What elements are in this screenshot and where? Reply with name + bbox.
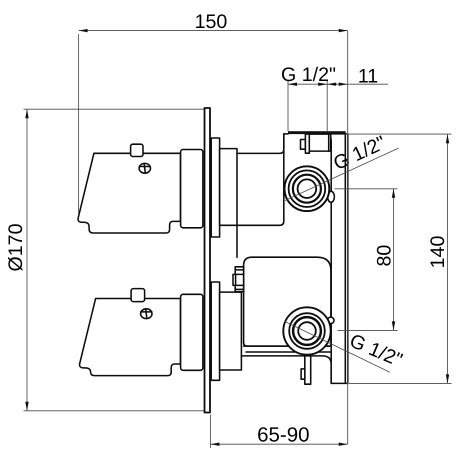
svg-text:11: 11: [358, 66, 378, 88]
dim 150 line: [79, 30, 348, 32]
top stem block: [181, 150, 203, 228]
ext lines D170: [24, 108, 204, 110]
dim 11 line: [327, 83, 388, 85]
ext lines G 1/2 top: [287, 81, 289, 132]
top cartridge neck: [220, 149, 237, 226]
ext lines 80: [335, 188, 398, 190]
wall plate: [205, 108, 211, 413]
fitting on housing left: [235, 267, 243, 292]
top port black bar: [284, 133, 288, 135]
bottom handle trapezoid: [80, 299, 181, 376]
bottom screw: [141, 309, 152, 319]
bottom cartridge flange: [211, 282, 219, 380]
top cartridge flange: [211, 138, 219, 237]
middle cartridge housing: [244, 257, 331, 346]
svg-text:Ø170: Ø170: [5, 223, 27, 271]
body upper outline (step + left edge): [237, 134, 284, 154]
rail boss bottom: [327, 317, 334, 324]
top screw: [139, 163, 150, 173]
dim 140 line: [447, 134, 449, 383]
bottom port circles: [283, 307, 330, 354]
leader line bottom port: [284, 321, 389, 372]
bottom clip: [305, 356, 311, 384]
dim G 1/2 top line: [288, 83, 327, 85]
svg-text:G 1/2": G 1/2": [281, 64, 336, 86]
ext line 65-90 left: [209, 415, 211, 449]
svg-text:65-90: 65-90: [257, 424, 309, 447]
leader line top port: [285, 148, 399, 200]
bottom handle tab: [131, 289, 145, 302]
mounting rail: [327, 134, 348, 384]
top handle tab: [131, 144, 143, 156]
top port circles: [285, 166, 330, 211]
lower slab outline: [241, 356, 331, 384]
top clip small square: [301, 140, 306, 150]
svg-text:150: 150: [195, 11, 228, 33]
bottom stem block: [181, 294, 203, 370]
dim 150 / 11 / 65-90 shared right ext: [347, 31, 349, 445]
bottom pipe lines: [244, 345, 330, 347]
dim 150 ext left: [78, 34, 80, 214]
top clip socket: [309, 134, 330, 151]
dim D170 line: [26, 109, 28, 411]
dim 80 line: [393, 189, 395, 331]
ext lines 140: [346, 133, 452, 135]
svg-text:80: 80: [374, 245, 396, 267]
top handle trapezoid: [78, 153, 180, 233]
svg-text:140: 140: [427, 236, 449, 269]
rail boss top: [328, 191, 335, 202]
bottom cartridge neck: [220, 292, 242, 370]
top clip bar: [305, 134, 309, 153]
dim 65-90 line: [210, 443, 347, 445]
